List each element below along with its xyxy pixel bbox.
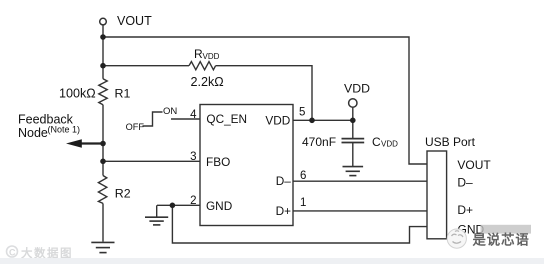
svg-text:ON: ON — [163, 106, 177, 117]
svg-text:2: 2 — [190, 195, 196, 207]
svg-text:是说芯语: 是说芯语 — [473, 231, 530, 247]
svg-text:100kΩ: 100kΩ — [59, 86, 96, 100]
svg-text:D+: D+ — [457, 203, 473, 217]
svg-text:OFF: OFF — [126, 122, 145, 132]
svg-text:大数据图: 大数据图 — [21, 246, 73, 260]
svg-text:(Note 1): (Note 1) — [48, 124, 81, 134]
svg-text:VDD: VDD — [344, 82, 370, 96]
svg-text:3: 3 — [190, 151, 196, 163]
svg-text:VOUT: VOUT — [117, 14, 152, 28]
svg-text:5: 5 — [299, 106, 305, 118]
svg-text:D–: D– — [457, 176, 473, 190]
svg-text:VDD: VDD — [203, 52, 220, 61]
svg-text:C: C — [9, 248, 16, 258]
svg-text:470nF: 470nF — [302, 135, 336, 149]
svg-text:Node: Node — [18, 126, 48, 140]
svg-text:VOUT: VOUT — [457, 158, 491, 172]
svg-text:VDD: VDD — [381, 140, 398, 149]
svg-text:C: C — [372, 135, 381, 149]
svg-text:R2: R2 — [115, 187, 131, 201]
svg-text:QC_EN: QC_EN — [206, 112, 247, 126]
svg-text:4: 4 — [190, 109, 197, 121]
svg-text:FBO: FBO — [206, 155, 230, 169]
svg-text:USB Port: USB Port — [425, 135, 476, 149]
svg-text:2.2kΩ: 2.2kΩ — [191, 75, 224, 89]
svg-text:D–: D– — [276, 174, 292, 188]
svg-text:6: 6 — [300, 170, 306, 182]
svg-text:1: 1 — [300, 197, 306, 209]
svg-text:D+: D+ — [276, 204, 292, 218]
svg-text:R1: R1 — [115, 86, 131, 100]
svg-text:VDD: VDD — [265, 114, 290, 128]
svg-text:GND: GND — [206, 199, 232, 213]
